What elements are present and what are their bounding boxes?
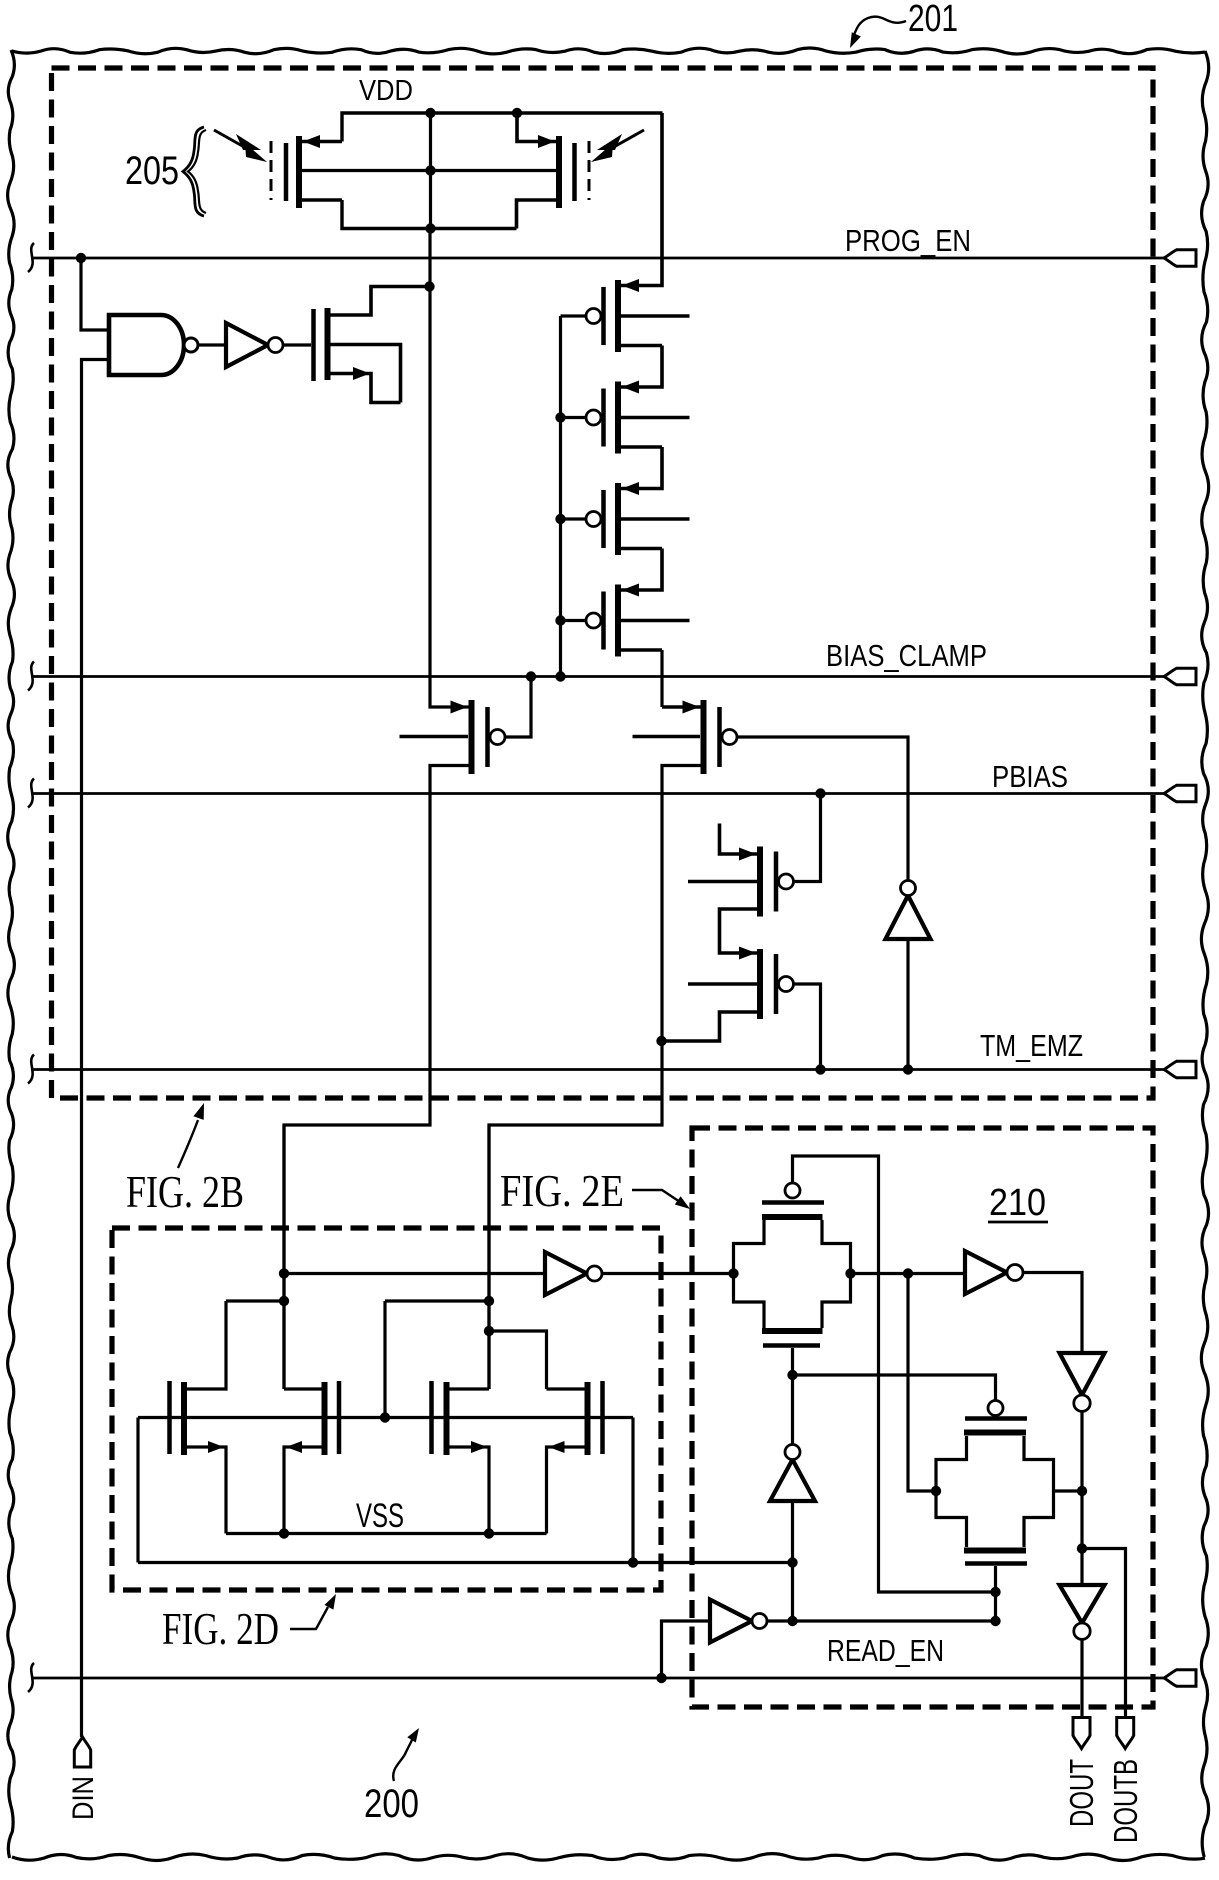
break squiggle on PBIAS at left edge	[28, 779, 34, 808]
node PROG_EN/DIN junction	[76, 253, 86, 263]
wire latch A input vertical	[282, 1125, 285, 1389]
wire latch body/gate line	[138, 1416, 633, 1419]
wire M4 source to M5 region	[660, 650, 663, 707]
wire 205-left drain arm	[302, 140, 342, 144]
wire latch B cross to body tap	[385, 1299, 489, 1302]
transistor 205-right gate bar	[572, 143, 577, 201]
wire vertical net V430 (205 rail to M5 drain)	[430, 229, 469, 708]
svg-text:VSS: VSS	[356, 1497, 404, 1535]
wire DOUT	[1080, 1640, 1083, 1718]
transistor 205-right floating gate (dashed)	[588, 141, 591, 200]
transistor M5 gate bubble	[490, 730, 505, 745]
wire vertical net V430 lower (M5 source to latch A)	[284, 766, 469, 1390]
wire DIN line	[82, 360, 110, 1738]
wire latch loop left	[136, 1418, 139, 1563]
node latch B top-arm junction	[484, 1326, 494, 1336]
svg-text:FIG. 2D: FIG. 2D	[162, 1603, 279, 1654]
wire latch loop bottom	[138, 1561, 793, 1564]
node Q1 drain junction	[424, 281, 434, 291]
transmission gate TG1 outline	[734, 1220, 765, 1328]
node 205 body junction	[425, 165, 435, 175]
wire latch A to U4 input	[284, 1272, 545, 1275]
node TG1-lead/TG2-gate junction	[990, 1587, 1000, 1597]
wire latch A top arm	[226, 1299, 284, 1302]
wire 205 center tie	[429, 113, 432, 229]
svg-text:DOUT: DOUT	[1063, 1759, 1100, 1827]
transistor M2 gate bubble	[586, 410, 601, 425]
wire TG1 bottom gate lead	[791, 1348, 794, 1375]
node VDD-rail junction B	[512, 108, 522, 118]
node TG2 right junction	[1077, 1486, 1087, 1496]
wire M5 gate lead to BIAS_CLAMP	[505, 677, 531, 738]
wire TG2 right arm	[1054, 1489, 1083, 1492]
wire TG1 out down to TG2	[908, 1274, 936, 1492]
transistor Q1 keeper gate bar	[311, 309, 316, 381]
wire M2 body stub	[621, 416, 690, 420]
dashed box FIG. 2D region	[112, 1228, 661, 1590]
svg-text:PBIAS: PBIAS	[992, 759, 1068, 794]
wire M4 gate lead	[561, 619, 587, 622]
transistor M1 stack gate bar	[601, 287, 606, 345]
wire U6 out	[1080, 1411, 1083, 1549]
wire TM_EMZ bus	[31, 1068, 1164, 1071]
node TG1 right junction	[845, 1268, 855, 1278]
wire M3 drain arm	[621, 447, 662, 489]
leader for 200	[393, 1738, 413, 1781]
transistor M1 stack channel bar	[615, 280, 621, 352]
nand U1 output bubble	[184, 338, 198, 352]
arrow on 205-left drain	[303, 135, 320, 148]
node latch B cross junction	[484, 1296, 494, 1306]
transistor 205-left floating gate (dashed)	[270, 141, 273, 200]
transistor M10 right gate bar	[337, 1381, 342, 1454]
port arrow PBIAS	[1164, 785, 1196, 801]
wire M6 gate lead	[737, 737, 908, 881]
node latch A tap to inverter	[279, 1268, 289, 1278]
brace for 205 pair	[183, 127, 204, 216]
wire M8 gate lead to TM_EMZ	[794, 984, 821, 1070]
svg-text:DOUTB: DOUTB	[1107, 1759, 1144, 1843]
wire TG1 top gate lead	[793, 1156, 996, 1592]
wire M1 source arm	[621, 344, 662, 348]
wire M2 drain arm	[621, 346, 662, 388]
node stack gate junction	[555, 615, 565, 625]
transistor M9 left channel bar	[181, 1382, 187, 1455]
TG2 top gate bar	[965, 1416, 1027, 1421]
node READ_EN junction	[656, 1673, 666, 1683]
wire BIAS_CLAMP bus	[31, 675, 1164, 678]
wire Q1 drain arm	[330, 287, 430, 316]
arrow on latch B right source	[549, 1441, 565, 1453]
transistor M1 gate bubble	[586, 309, 601, 324]
inverter U2	[226, 323, 268, 367]
figure torn-paper border (left edge)	[8, 50, 15, 1858]
wire M8 source arm	[662, 1012, 757, 1041]
port arrow PROG_EN	[1164, 250, 1196, 266]
port arrow READ_EN	[1164, 1670, 1196, 1686]
svg-text:BIAS_CLAMP: BIAS_CLAMP	[826, 638, 987, 673]
wire Q1 body arm	[330, 345, 401, 403]
wire 205-right drain arm	[517, 113, 556, 142]
node DOUTB branch junction	[1077, 1543, 1087, 1553]
node stack gate junction	[555, 412, 565, 422]
wire U8 out	[767, 1619, 996, 1622]
wire 205 bottom rail	[342, 200, 517, 229]
wire U9 in	[1080, 1549, 1083, 1586]
transistor M7 gate bar	[774, 852, 779, 912]
wire M1 body stub	[621, 314, 690, 318]
wire M3 gate lead	[561, 517, 587, 520]
arrow on M4 drain	[622, 584, 639, 597]
leader for FIG. 2E	[632, 1190, 680, 1202]
node U7/loop junction	[787, 1557, 797, 1567]
wire TG2 bottom gate lead	[994, 1566, 997, 1621]
transistor M11 plus-outline (latch B)	[450, 1387, 490, 1390]
wire 205-right source arm	[517, 200, 557, 229]
inverter U9 (down)	[1060, 1585, 1105, 1623]
transistor M5 gate bar	[485, 707, 490, 767]
port arrow DIN	[74, 1737, 90, 1767]
wire stack gate line	[559, 316, 562, 677]
svg-text:READ_EN: READ_EN	[827, 1633, 944, 1668]
wire TG1 gate to TG2 top gate	[793, 1375, 996, 1400]
arrow on 205-right drain	[538, 135, 555, 148]
arrow on latch B left source	[471, 1441, 487, 1453]
wire U2 out to Q1 gate	[284, 343, 312, 346]
wire M4 source arm	[621, 648, 662, 652]
transistor M9 plus-outline (latch A)	[187, 1301, 226, 1389]
transistor M11 left gate bar	[429, 1381, 434, 1454]
transistor M3 stack channel bar	[615, 483, 621, 555]
svg-text:210: 210	[989, 1182, 1046, 1224]
transistor M5 channel bar	[469, 700, 475, 774]
svg-text:FIG. 2B: FIG. 2B	[126, 1166, 244, 1217]
leader for 201	[852, 17, 906, 40]
TG2 bottom gate bar	[965, 1561, 1027, 1566]
nand gate U1	[109, 315, 184, 375]
wire U3 input from TM_EMZ	[906, 939, 909, 1070]
transistor 205-left gate bar	[284, 143, 289, 201]
arrow on M3 drain	[622, 482, 639, 495]
transistor M4 stack channel bar	[615, 585, 621, 657]
wire M3 body stub	[621, 517, 690, 521]
transistor M6 channel bar	[701, 700, 707, 774]
svg-text:PROG_EN: PROG_EN	[845, 223, 971, 258]
TG1 top gate bar	[762, 1200, 824, 1205]
wire VSS rail	[226, 1532, 547, 1535]
wire PROG_EN to NAND input A	[81, 258, 109, 330]
node stack gate junction	[555, 514, 565, 524]
flash arrow on 205-right (program indicator)	[612, 130, 644, 148]
arrow on M2 drain	[622, 381, 639, 394]
wire Q1 source arm	[330, 374, 401, 403]
wire U5 out	[1023, 1273, 1083, 1354]
node stack gate to BIAS_CLAMP	[555, 671, 565, 681]
svg-text:205: 205	[125, 149, 179, 193]
wire DOUTB	[1082, 1549, 1126, 1718]
port arrow DOUTB	[1117, 1718, 1134, 1749]
arrow on M6 drain	[683, 701, 700, 714]
svg-text:FIG. 2E: FIG. 2E	[500, 1165, 624, 1216]
TG2 top channel bar	[964, 1430, 1026, 1436]
node 205 bottom-rail junction	[425, 223, 435, 233]
wire M4 drain arm	[621, 549, 662, 591]
wire latch loop right	[631, 1418, 634, 1563]
wire M2 gate lead	[561, 416, 587, 419]
wire latch B body tap vertical	[383, 1301, 386, 1418]
node M8 gate to TM_EMZ	[815, 1064, 825, 1074]
transistor M10 right channel bar	[322, 1382, 328, 1455]
node latch B body tap	[380, 1412, 390, 1422]
TG2 top gate bubble	[988, 1401, 1003, 1416]
wire TG1 gate node to U7	[791, 1375, 794, 1445]
wire M2 source arm	[621, 445, 662, 449]
wire READ_EN bus	[31, 1677, 1164, 1680]
transistor M2 stack channel bar	[615, 382, 621, 454]
inverter U4 (latch output)	[545, 1252, 587, 1295]
transistor M7 channel bar	[757, 847, 763, 917]
break squiggle on READ_EN at left edge	[28, 1663, 34, 1692]
node TG1 bottom gate junction	[787, 1370, 797, 1380]
TG1 top gate bubble	[785, 1183, 800, 1198]
break squiggle on PROG_EN at left edge	[28, 243, 34, 272]
wire M8 body stub	[688, 982, 757, 986]
svg-text:201: 201	[908, 0, 958, 40]
wire PBIAS bus	[31, 792, 1164, 795]
wire M7 body stub	[688, 880, 757, 884]
arrow on M1 drain	[622, 279, 639, 292]
inverter U6 (down)	[1060, 1353, 1105, 1395]
wire M6 body stub	[633, 735, 701, 739]
wire M1 drain arm	[621, 113, 662, 286]
wire latch B top arm	[489, 1331, 547, 1389]
wire TG1 right to U5	[851, 1272, 966, 1275]
transistor 205-right channel bar	[556, 136, 562, 208]
transistor M8 gate bubble	[779, 977, 794, 992]
node TG2 gate to READ_EN inv	[990, 1616, 1000, 1626]
transistor M2 stack gate bar	[601, 389, 606, 447]
wire M1 gate lead	[561, 314, 587, 317]
wire READ_EN to U8	[662, 1621, 711, 1678]
arrow on M8 drain	[739, 947, 756, 960]
transmission gate TG2 outline	[936, 1436, 967, 1547]
svg-text:DIN: DIN	[67, 1776, 100, 1820]
inverter U3 (TM_EMZ buffer)	[886, 896, 931, 940]
transistor M6 gate bar	[717, 707, 722, 767]
wire M7 gate lead to PBIAS	[794, 794, 821, 882]
wire 205-left source arm	[302, 198, 342, 202]
node VDD-rail junction A	[425, 108, 435, 118]
wire M7 drain stub	[720, 824, 758, 855]
wire U4 out to TG1	[602, 1272, 734, 1275]
wire M7 source arm	[720, 909, 758, 953]
wire M4 body stub	[621, 619, 690, 623]
node latch A top-arm junction	[279, 1296, 289, 1306]
TG1 bottom gate bar	[763, 1343, 820, 1348]
node U7/READ_EN-inv junction	[787, 1616, 797, 1626]
TG2 bottom channel bar	[964, 1548, 1026, 1554]
svg-text:200: 200	[364, 1782, 419, 1826]
arrow on latch A left source	[208, 1441, 224, 1453]
wire M3 source arm	[621, 547, 662, 551]
node M5 gate junction	[526, 671, 536, 681]
arrow on latch A right source	[286, 1441, 302, 1453]
wire M6 drain arm	[662, 705, 701, 709]
break squiggle on BIAS_CLAMP at left edge	[28, 662, 34, 691]
transistor M8 gate bar	[774, 954, 779, 1014]
transistor M3 gate bubble	[586, 512, 601, 527]
wire vertical net V662 lower (to latch B)	[489, 1041, 662, 1389]
node VSS rail junction A	[279, 1528, 289, 1538]
figure torn-paper border (bottom edge)	[12, 1854, 1205, 1861]
transistor M6 gate bubble	[722, 730, 737, 745]
transistor M11 left channel bar	[444, 1382, 450, 1455]
inverter U7 (mid up)	[770, 1460, 815, 1502]
transistor M4 gate bubble	[586, 613, 601, 628]
break squiggle on TM_EMZ at left edge	[28, 1055, 34, 1084]
inverter U5	[965, 1251, 1007, 1294]
wire U1 out to U2 in	[198, 343, 226, 346]
TG1 top channel bar	[762, 1214, 823, 1220]
flash arrow on 205-left (program indicator)	[214, 130, 246, 148]
TG1 bottom channel bar	[762, 1328, 823, 1334]
arrow on M7 drain	[739, 848, 756, 861]
inverter U8 (READ_EN)	[710, 1600, 752, 1643]
node VSS rail junction B	[484, 1528, 494, 1538]
port arrow BIAS_CLAMP	[1164, 668, 1196, 684]
arrow on Q1 source	[353, 367, 370, 380]
node M7 gate to PBIAS	[815, 788, 825, 798]
wire M6 source arm	[662, 766, 701, 1042]
leader for FIG. 2B	[178, 1120, 198, 1168]
transistor Q1 keeper channel bar	[325, 308, 331, 380]
figure torn-paper border (top edge)	[12, 48, 1205, 54]
transistor M7 gate bubble	[779, 874, 794, 889]
arrow on M5 drain	[451, 701, 468, 714]
node latch loop right junction	[628, 1557, 638, 1567]
transistor M8 channel bar	[757, 949, 763, 1019]
svg-text:TM_EMZ: TM_EMZ	[980, 1028, 1083, 1063]
figure torn-paper border (right edge)	[1201, 51, 1208, 1857]
node U3 input junction	[903, 1064, 913, 1074]
dashed box FIG. 2B region	[52, 68, 1154, 1098]
transistor M4 stack gate bar	[601, 592, 606, 650]
transistor M12 right channel bar	[585, 1382, 591, 1455]
node TG1 left junction	[728, 1268, 738, 1278]
port arrow DOUT	[1073, 1718, 1090, 1749]
wire PROG_EN bus	[31, 257, 1164, 260]
wire latch B input vertical	[487, 1125, 490, 1389]
wire 205 body line	[302, 169, 556, 172]
dashed box FIG. 2E region 210	[692, 1128, 1153, 1707]
svg-text:VDD: VDD	[359, 75, 413, 107]
transistor M9 left gate bar	[167, 1381, 172, 1454]
wire VDD rail	[342, 113, 663, 142]
wire M5 body stub	[400, 735, 469, 739]
transistor 205-left channel bar	[296, 136, 302, 208]
wire U7 input chain	[791, 1501, 794, 1621]
port arrow TM_EMZ	[1164, 1061, 1196, 1077]
transistor M12 right gate bar	[600, 1381, 605, 1454]
node TG2 left junction	[931, 1486, 941, 1496]
transistor M3 stack gate bar	[601, 490, 606, 548]
leader for FIG. 2D	[290, 1607, 328, 1629]
node TG1 output branch junction	[903, 1268, 913, 1278]
node M6 source / M8 junction	[656, 1036, 666, 1046]
